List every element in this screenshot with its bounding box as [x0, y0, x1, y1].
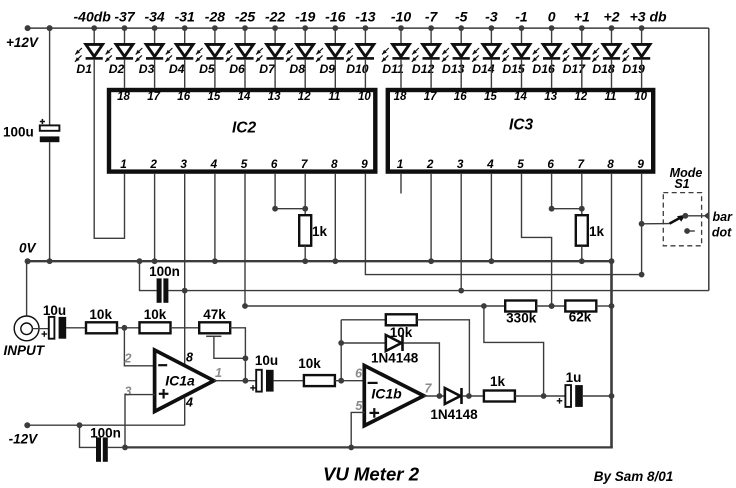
wire divider to filter	[484, 306, 544, 396]
svg-text:1k: 1k	[490, 374, 506, 389]
junction 62k 0V	[609, 303, 615, 309]
label C4 plus	[557, 400, 563, 402]
junction IC3 pin5 node	[549, 303, 555, 309]
svg-text:5: 5	[517, 157, 524, 171]
wire anode D6	[244, 28, 246, 44]
LED D14	[483, 44, 500, 56]
connector INPUT jack	[14, 316, 39, 341]
svg-text:-25: -25	[235, 9, 255, 25]
wire anode D1	[93, 28, 95, 44]
wire IC2 pin4 to 0V	[214, 174, 216, 261]
svg-text:6: 6	[547, 157, 554, 171]
svg-text:IC3: IC3	[509, 117, 534, 134]
svg-text:14: 14	[514, 91, 527, 103]
svg-text:1N4148: 1N4148	[430, 407, 478, 422]
op IC3 box	[388, 90, 653, 172]
capacitor 1u	[565, 385, 571, 407]
switch lever arm	[670, 217, 682, 224]
svg-text:6: 6	[355, 367, 363, 381]
svg-text:8: 8	[186, 350, 193, 364]
wire signal line	[245, 305, 505, 307]
svg-text:0: 0	[548, 9, 556, 25]
svg-text:11: 11	[605, 91, 617, 103]
wire IC2 pin7 to R	[304, 174, 306, 215]
junction 1u 0V	[609, 393, 615, 399]
wire anode D18	[611, 28, 613, 44]
svg-text:1k: 1k	[589, 224, 605, 239]
capacitor 100n top	[157, 278, 162, 302]
wire IC1a pin8 supply	[184, 291, 186, 366]
svg-text:-31: -31	[175, 9, 195, 25]
svg-text:4: 4	[486, 157, 494, 171]
wire -12V row	[27, 424, 184, 426]
LED D16	[543, 44, 560, 56]
wire D18 cathode	[611, 60, 613, 88]
wire input jack stem	[26, 261, 28, 316]
wire IC1b pin5 branch	[351, 412, 364, 447]
wire R3 to out	[230, 328, 246, 381]
wire diode to 1k	[463, 395, 484, 397]
wire 100u top	[49, 28, 51, 125]
wire anode D13	[460, 28, 462, 44]
wire 1k to C4	[515, 395, 566, 397]
junction switch lever	[639, 221, 645, 227]
op IC2 box	[109, 90, 375, 172]
label C1 plus	[42, 333, 48, 335]
wire IC3 pin7 to R	[581, 174, 583, 215]
junction 100n bot branch	[77, 422, 83, 428]
svg-text:330k: 330k	[506, 310, 537, 325]
wire 0V down	[610, 261, 613, 447]
junction IC3 pin4 0V	[489, 258, 495, 264]
label IC1b plus	[370, 412, 380, 414]
wire IC3 pin5 jog	[522, 174, 552, 306]
svg-text:18: 18	[394, 91, 407, 103]
junction 1k IC3 0V	[579, 258, 585, 264]
wire IC3 pin2 to 0V	[430, 174, 432, 261]
svg-text:10u: 10u	[43, 303, 66, 318]
resistor 1k IC3	[576, 215, 588, 246]
wire D19 cathode	[641, 60, 643, 88]
svg-text:8: 8	[331, 157, 338, 171]
wire D16 cathode	[551, 60, 553, 88]
junction 100u branch	[47, 25, 53, 31]
wire anode D15	[521, 28, 523, 44]
wire 330k to 62k	[536, 305, 565, 307]
wire D17 cathode	[581, 60, 583, 88]
wire 100u bottom	[49, 142, 51, 261]
junction IC1b pin6 node	[338, 378, 344, 384]
wire 1k IC3 to 0V	[581, 246, 583, 262]
junction IC3 pin3	[458, 288, 464, 294]
wire 1k IC2 to 0V	[304, 246, 306, 262]
svg-text:3: 3	[180, 157, 187, 171]
wire IC3 pin4 to 0V	[490, 174, 492, 261]
svg-text:bar: bar	[713, 210, 734, 224]
wire R4 to IC1b	[335, 380, 364, 382]
LED D13	[453, 44, 470, 56]
junction pin5 gnd	[348, 445, 354, 451]
wire +12V top rail	[28, 27, 709, 29]
svg-text:13: 13	[268, 91, 281, 103]
wire 100n bot leg	[80, 425, 97, 447]
node anode D19	[639, 25, 645, 31]
junction divider tap	[549, 303, 555, 309]
svg-text:D8: D8	[289, 62, 305, 76]
LED D15	[513, 44, 530, 56]
svg-text:IC1a: IC1a	[165, 372, 195, 388]
wire D7 cathode	[274, 60, 276, 88]
svg-text:9: 9	[361, 157, 368, 171]
svg-text:-1: -1	[515, 9, 528, 25]
resistor 10k R2	[140, 322, 171, 333]
junction IC2 pin2 0V	[152, 258, 158, 264]
svg-text:2: 2	[124, 352, 132, 366]
svg-text:4: 4	[185, 395, 193, 409]
wire 10k fb right	[417, 320, 470, 396]
svg-text:D2: D2	[109, 62, 125, 76]
wire D5 cathode	[214, 60, 216, 88]
junction divider top	[481, 303, 487, 309]
node anode D15	[519, 25, 525, 31]
wire lever feed	[642, 223, 670, 225]
svg-text:-10: -10	[391, 9, 411, 25]
junction V+ line 100n	[182, 288, 188, 294]
connector bar wedge	[704, 212, 710, 220]
resistor 1k out	[484, 391, 515, 402]
wire 100n left leg	[140, 261, 157, 290]
junction 100u 0V	[47, 258, 53, 264]
resistor 10k R4	[304, 375, 335, 386]
wire D3 cathode	[154, 60, 156, 88]
wire anode D8	[304, 28, 306, 44]
wire out to C2	[214, 380, 256, 382]
junction filter node	[541, 393, 547, 399]
junction wiper node	[243, 355, 249, 361]
junction IC3 pin6	[549, 206, 555, 212]
wire D12 cathode	[430, 60, 432, 88]
junction IC2 pin5 node	[242, 303, 248, 309]
wire anode D16	[551, 28, 553, 44]
wire anode D17	[581, 28, 583, 44]
node -12V terminal	[24, 422, 30, 428]
svg-text:100n: 100n	[90, 425, 121, 440]
wire IC1a pin4 supply	[184, 398, 186, 425]
wire anode D5	[214, 28, 216, 44]
capacitor 100n bottom	[96, 437, 101, 461]
junction IC3 pin8 0V	[609, 258, 615, 264]
svg-text:16: 16	[454, 91, 467, 103]
label IC1b minus	[368, 382, 378, 384]
wire 1u to 0V	[583, 395, 612, 397]
wire anode D12	[430, 28, 432, 44]
node anode D10	[363, 25, 369, 31]
wire bar contact	[685, 215, 704, 217]
svg-text:15: 15	[484, 91, 497, 103]
wire R1 to R2	[117, 327, 140, 329]
node anode D6	[242, 25, 248, 31]
wire anode D4	[184, 28, 186, 44]
LED D3	[146, 44, 163, 56]
label C2 plus	[250, 387, 256, 389]
switch lever arrowhead	[677, 215, 686, 222]
node anode D17	[579, 25, 585, 31]
resistor 330k	[505, 301, 536, 312]
capacitor 10u input	[49, 317, 55, 339]
wire D11 cathode	[400, 60, 402, 88]
svg-text:dot: dot	[712, 225, 732, 239]
LED D19	[633, 44, 650, 56]
junction pin3 gnd	[122, 445, 128, 451]
node anode D1	[91, 25, 97, 31]
svg-text:0V: 0V	[19, 241, 37, 256]
svg-text:IC2: IC2	[232, 120, 257, 137]
LED D2	[116, 44, 133, 56]
svg-text:VU Meter 2: VU Meter 2	[323, 464, 420, 485]
svg-text:S1: S1	[674, 177, 689, 191]
wire D14 cathode	[490, 60, 492, 88]
svg-text:9: 9	[637, 157, 644, 171]
junction IC1a out	[243, 378, 249, 384]
wire fb diode cathode	[404, 343, 440, 396]
wire IC2 pin8 to 0V	[334, 174, 336, 261]
label IC1a minus	[158, 364, 167, 366]
LED D11	[393, 44, 410, 56]
node anode D18	[609, 25, 615, 31]
svg-text:-34: -34	[144, 9, 164, 25]
svg-text:10u: 10u	[255, 353, 278, 368]
wire IC3 pin1 stub	[400, 174, 402, 194]
wire IC3 pin3 to V+ line	[460, 174, 462, 291]
wire IC2 pin2 to 0V	[154, 174, 156, 261]
node 0V terminal	[25, 258, 31, 264]
LED D9	[327, 44, 344, 56]
wire anode D14	[490, 28, 492, 44]
wire jack to C1	[32, 328, 48, 330]
resistor 10k feedback	[386, 314, 417, 325]
svg-text:5: 5	[355, 399, 363, 413]
svg-text:-12V: -12V	[9, 432, 39, 447]
wire anode D10	[364, 28, 366, 44]
junction IC1b out node	[437, 393, 443, 399]
node anode D4	[182, 25, 188, 31]
wire IC3 pin8 to 0V	[611, 174, 613, 261]
svg-text:6: 6	[271, 157, 278, 171]
junction rectifier node	[466, 393, 472, 399]
node anode D2	[122, 25, 128, 31]
LED D5	[207, 44, 224, 56]
op-amp IC1b	[364, 366, 424, 426]
resistor 10k R1	[86, 322, 117, 333]
wire IC2 pin5 signal	[244, 174, 246, 306]
svg-text:10k: 10k	[298, 356, 321, 371]
junction IC2 pin8 0V	[332, 258, 338, 264]
svg-text:D5: D5	[199, 62, 215, 76]
node anode D7	[272, 25, 278, 31]
svg-text:-3: -3	[485, 9, 498, 25]
svg-text:+1: +1	[574, 9, 590, 25]
svg-text:D6: D6	[229, 62, 245, 76]
svg-text:12: 12	[574, 91, 587, 103]
wire anode D3	[154, 28, 156, 44]
wire D6 cathode	[244, 60, 246, 88]
switch S1 dashed box	[663, 193, 701, 246]
svg-text:1u: 1u	[566, 370, 582, 385]
wire fb left vertical	[340, 320, 342, 381]
node anode D5	[212, 25, 218, 31]
svg-text:IC1b: IC1b	[371, 386, 402, 402]
svg-text:8: 8	[607, 157, 614, 171]
svg-text:-37: -37	[114, 9, 135, 25]
junction 1k IC2 0V	[302, 258, 308, 264]
wire IC1b out	[424, 395, 445, 397]
junction fb diode anode	[338, 340, 344, 346]
LED D7	[267, 44, 284, 56]
diode 1N4148 feedback	[386, 335, 402, 351]
svg-text:3: 3	[457, 157, 464, 171]
junction IC2 pin7	[302, 206, 308, 212]
junction IC2 pin6	[272, 206, 278, 212]
wire D13 cathode	[460, 60, 462, 88]
svg-text:+2: +2	[604, 9, 620, 25]
wire D4 cathode	[184, 60, 186, 88]
wire IC3 pin6	[551, 174, 553, 209]
wire IC1a pin3 branch	[125, 395, 155, 448]
svg-text:1: 1	[120, 157, 127, 171]
node anode D12	[428, 25, 434, 31]
svg-text:14: 14	[238, 91, 251, 103]
svg-text:D3: D3	[139, 62, 155, 76]
svg-text:10k: 10k	[144, 307, 167, 322]
wire dot contact stub	[687, 230, 695, 232]
wire 0V rail	[28, 260, 612, 262]
wire 100n bot right	[108, 446, 125, 448]
node anode D14	[489, 25, 495, 31]
wire IC3 pin6-pin7 tie	[552, 208, 582, 210]
svg-text:+3 db: +3 db	[630, 9, 667, 25]
svg-text:10k: 10k	[89, 307, 112, 322]
svg-text:10: 10	[634, 91, 647, 103]
svg-text:1k: 1k	[312, 224, 328, 239]
node dot contact	[684, 228, 690, 234]
junction IC3 pin2 0V	[428, 258, 434, 264]
label IC1a plus	[159, 393, 169, 395]
label 100u plus	[40, 121, 45, 123]
wire anode D11	[400, 28, 402, 44]
svg-text:62k: 62k	[569, 309, 592, 324]
svg-text:100u: 100u	[3, 125, 34, 140]
diode 1N4148 series	[445, 388, 461, 404]
wire IC3 pin9	[641, 174, 643, 275]
svg-text:13: 13	[544, 91, 557, 103]
wire IC2 pin9 mode	[365, 174, 641, 275]
svg-text:1: 1	[215, 366, 222, 380]
wire IC2 pin6	[274, 174, 276, 209]
preset 47k wiper	[206, 335, 221, 337]
junction IC2 pin4 0V	[212, 258, 218, 264]
op-amp IC1a	[155, 350, 214, 411]
wire IC1a pin2 branch	[124, 328, 154, 366]
wire C1 to R1	[66, 327, 86, 329]
node anode D11	[398, 25, 404, 31]
svg-text:4: 4	[210, 157, 218, 171]
node anode D13	[458, 25, 464, 31]
svg-text:-13: -13	[355, 9, 375, 25]
svg-text:18: 18	[117, 91, 130, 103]
node anode D9	[332, 25, 338, 31]
wire C2 to R4	[274, 380, 304, 382]
svg-text:17: 17	[424, 91, 437, 103]
wire IC2 pin6-pin7 tie	[275, 208, 305, 210]
svg-text:47k: 47k	[203, 307, 226, 322]
svg-text:D4: D4	[169, 62, 185, 76]
wire IC2 pin3 to V+ line	[184, 174, 186, 291]
node anode D8	[302, 25, 308, 31]
capacitor 10u coupling	[256, 370, 262, 392]
wire anode D19	[641, 28, 643, 44]
svg-text:D9: D9	[320, 62, 336, 76]
wire +12V right vertical	[708, 28, 710, 291]
wire V+ distribution line	[185, 290, 709, 292]
svg-text:D1: D1	[76, 62, 92, 76]
svg-text:1N4148: 1N4148	[371, 351, 419, 366]
LED D17	[573, 44, 590, 56]
resistor 47k R3	[199, 322, 230, 333]
node bar contact	[683, 213, 689, 219]
junction IC3 pin7	[579, 206, 585, 212]
LED D1	[86, 44, 103, 56]
LED D12	[423, 44, 440, 56]
svg-text:D7: D7	[259, 62, 276, 76]
wire R2 to R3	[171, 327, 200, 329]
junction inv node	[122, 325, 128, 331]
LED D10	[357, 44, 374, 56]
wire 62k to 0V	[596, 305, 611, 307]
wire D15 cathode	[521, 60, 523, 88]
svg-text:17: 17	[147, 91, 160, 103]
svg-text:7: 7	[425, 381, 433, 395]
junction 100n top 0V	[137, 258, 143, 264]
svg-text:1: 1	[397, 157, 404, 171]
wire anode D2	[124, 28, 126, 44]
svg-text:100n: 100n	[149, 264, 180, 279]
svg-text:-40db: -40db	[74, 9, 112, 25]
LED D6	[237, 44, 254, 56]
wire D2 cathode	[124, 60, 126, 88]
svg-text:+12V: +12V	[6, 35, 39, 50]
LED D4	[176, 44, 193, 56]
svg-text:10: 10	[358, 91, 371, 103]
svg-text:5: 5	[241, 157, 248, 171]
capacitor 100u	[40, 125, 60, 130]
svg-text:2: 2	[426, 157, 434, 171]
svg-text:12: 12	[298, 91, 311, 103]
svg-text:D17: D17	[563, 62, 587, 76]
node anode D3	[152, 25, 158, 31]
LED D8	[297, 44, 314, 56]
svg-text:INPUT: INPUT	[4, 343, 46, 358]
wire D8 cathode	[304, 60, 306, 88]
node +12V supply terminal	[25, 25, 31, 31]
wire D1 cathode to IC2 pin1	[94, 60, 124, 239]
wire D9 cathode	[334, 60, 336, 88]
wire anode D9	[334, 28, 336, 44]
svg-text:16: 16	[177, 91, 190, 103]
wire fb to 10k	[341, 319, 386, 321]
svg-text:-5: -5	[455, 9, 468, 25]
svg-text:2: 2	[149, 157, 157, 171]
LED D18	[603, 44, 620, 56]
